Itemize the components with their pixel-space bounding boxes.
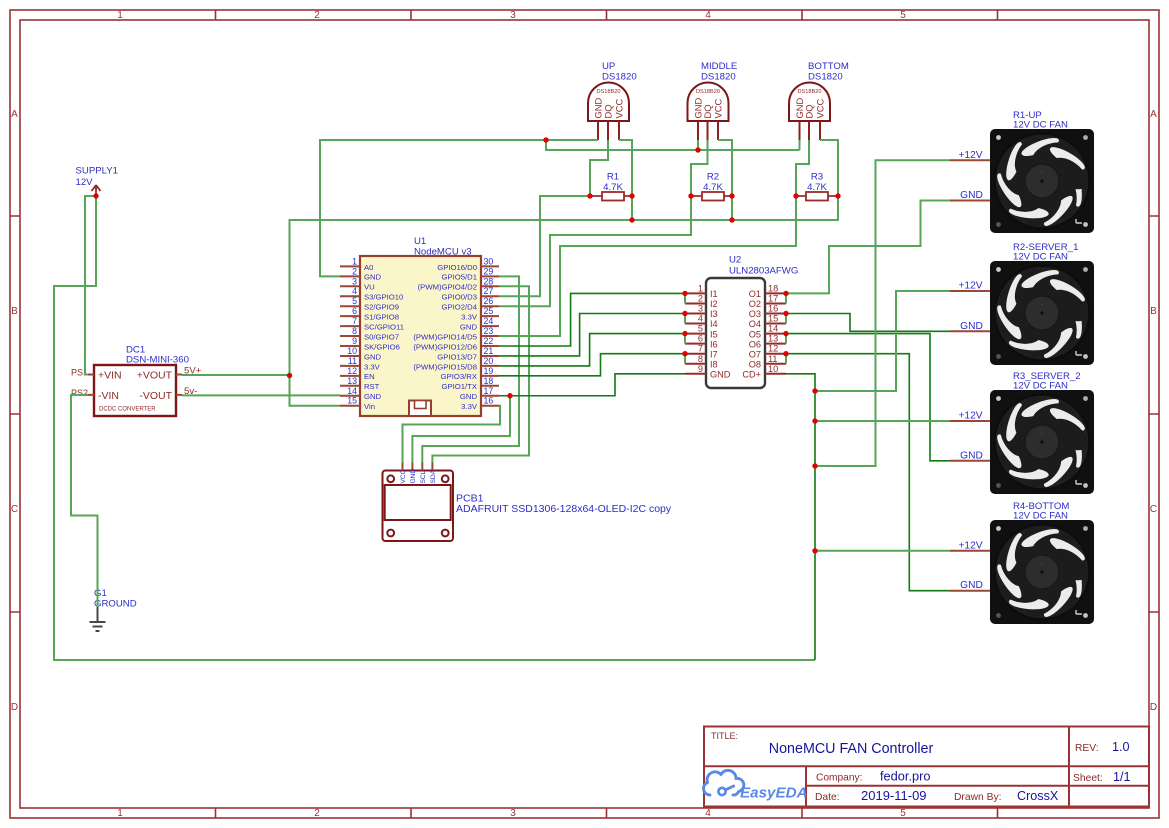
svg-text:O1: O1 xyxy=(749,289,761,299)
svg-text:D: D xyxy=(11,702,18,713)
svg-text:R1: R1 xyxy=(607,172,619,183)
junction R2 left xyxy=(688,193,693,198)
svg-text:12V DC FAN: 12V DC FAN xyxy=(1013,381,1068,392)
wire 5v- from DC1 to U1 pin14 xyxy=(182,394,340,396)
wire U1 D1 to PCB1 SCL xyxy=(422,276,519,462)
svg-text:CrossX: CrossX xyxy=(1017,789,1059,803)
wire 5V+ from DC1 xyxy=(182,374,290,376)
svg-text:21: 21 xyxy=(484,346,494,356)
ruler letters left xyxy=(11,109,18,713)
U2 left pin numbers xyxy=(698,283,703,373)
svg-text:G1: G1 xyxy=(94,588,107,599)
svg-text:I8: I8 xyxy=(710,359,718,369)
svg-text:13: 13 xyxy=(768,334,778,344)
svg-text:REV:: REV: xyxy=(1075,743,1099,754)
PCB1 screen rectangle xyxy=(385,485,451,520)
svg-text:13: 13 xyxy=(347,376,357,386)
wire GND bus lower row xyxy=(546,140,800,150)
junction VCC bus R2 xyxy=(729,217,734,222)
ruler ticks bottom xyxy=(216,808,998,818)
junction U2 O5 xyxy=(783,331,788,336)
svg-text:24: 24 xyxy=(484,316,494,326)
svg-text:5: 5 xyxy=(900,10,906,21)
junction U2 I3 xyxy=(682,311,687,316)
svg-text:GPIO0/D3: GPIO0/D3 xyxy=(442,293,477,302)
fan R4-BOTTOM label xyxy=(1013,501,1069,522)
svg-text:GND: GND xyxy=(960,321,983,332)
svg-text:DS1820: DS1820 xyxy=(808,72,843,83)
svg-text:11: 11 xyxy=(768,354,778,364)
junction R1 left xyxy=(587,193,592,198)
resistor R1 body xyxy=(602,192,624,201)
svg-text:9: 9 xyxy=(352,336,357,346)
svg-text:3: 3 xyxy=(510,10,516,21)
ruler numbers top xyxy=(117,10,906,21)
title block frame xyxy=(704,727,1149,807)
wire U2 O1 to fan1 GND xyxy=(786,201,950,294)
svg-text:17: 17 xyxy=(768,293,778,303)
svg-text:UP: UP xyxy=(602,61,615,72)
svg-text:GND: GND xyxy=(960,580,983,591)
svg-text:18: 18 xyxy=(484,376,494,386)
junction +12V fan1 tap xyxy=(812,463,817,468)
svg-text:Vin: Vin xyxy=(364,402,375,411)
wire U1 3.3V to PCB1 VCC xyxy=(403,406,501,463)
microcontroller U1 body xyxy=(360,256,481,416)
svg-text:3.3V: 3.3V xyxy=(461,402,478,411)
junction +12V fan2 tap xyxy=(812,388,817,393)
svg-text:I2: I2 xyxy=(710,299,718,309)
U1 left pin stubs 1-15 xyxy=(340,266,360,405)
svg-text:Sheet:: Sheet: xyxy=(1073,773,1103,784)
svg-text:SCL: SCL xyxy=(420,470,427,483)
svg-text:19: 19 xyxy=(484,366,494,376)
OLED module PCB1 label xyxy=(456,493,672,516)
temperature sensor U_MID label xyxy=(701,61,737,83)
U1 right pin stubs 16-30 xyxy=(481,266,499,405)
svg-text:B: B xyxy=(11,306,18,317)
U2 right pin names xyxy=(742,289,761,379)
wire VCC bus to 5V+ xyxy=(290,196,839,376)
wire MIDDLE VCC to R2 right xyxy=(718,140,732,220)
svg-text:O5: O5 xyxy=(749,329,761,339)
svg-text:A: A xyxy=(1150,109,1157,120)
resistor R3 label xyxy=(807,172,827,194)
svg-text:18: 18 xyxy=(768,283,778,293)
svg-text:fedor.pro: fedor.pro xyxy=(880,769,931,784)
svg-text:S1/GPIO8: S1/GPIO8 xyxy=(364,313,399,322)
svg-text:S2/GPIO9: S2/GPIO9 xyxy=(364,303,399,312)
wire +12V supply trunk xyxy=(54,196,815,660)
svg-text:Date:: Date: xyxy=(815,792,840,803)
U1 right pin numbers xyxy=(484,256,494,405)
svg-text:GPIO13/D7: GPIO13/D7 xyxy=(437,352,477,361)
svg-text:2019-11-09: 2019-11-09 xyxy=(861,788,927,803)
svg-text:NoneMCU FAN Controller: NoneMCU FAN Controller xyxy=(769,741,934,757)
wire MIDDLE DQ to R2 and U1 pin26 xyxy=(499,140,708,306)
wire BOTTOM VCC to R3 right xyxy=(820,140,838,220)
driver U2 ULN2803AFWG label xyxy=(729,255,798,277)
fan R2-SERVER_1 label xyxy=(1013,242,1078,263)
svg-text:TITLE:: TITLE: xyxy=(711,731,738,741)
svg-text:2: 2 xyxy=(314,808,320,819)
svg-text:23: 23 xyxy=(484,326,494,336)
svg-text:GPIO1/TX: GPIO1/TX xyxy=(442,382,477,391)
junction U1 GND pin17 xyxy=(507,393,512,398)
svg-text:I3: I3 xyxy=(710,309,718,319)
svg-text:VCC: VCC xyxy=(712,98,723,118)
svg-text:DCDC CONVERTER: DCDC CONVERTER xyxy=(99,407,156,413)
EasyEDA logo xyxy=(704,770,808,801)
junction U2 I1 xyxy=(682,291,687,296)
ruler ticks left xyxy=(10,216,20,612)
svg-text:1: 1 xyxy=(352,256,357,266)
svg-text:U1: U1 xyxy=(414,236,426,247)
svg-text:5: 5 xyxy=(698,324,703,334)
PCB1 mounting holes xyxy=(387,475,448,536)
svg-text:DQ: DQ xyxy=(602,104,613,118)
svg-text:GPIO3/RX: GPIO3/RX xyxy=(441,372,477,381)
svg-text:EN: EN xyxy=(364,372,375,381)
svg-text:I7: I7 xyxy=(710,349,718,359)
svg-text:10: 10 xyxy=(347,346,357,356)
svg-text:5: 5 xyxy=(352,296,357,306)
svg-text:4: 4 xyxy=(698,314,703,324)
svg-text:20: 20 xyxy=(484,356,494,366)
fan R2-SERVER_1 image xyxy=(990,261,1094,365)
resistor R3 leads xyxy=(796,195,838,197)
svg-text:7: 7 xyxy=(698,344,703,354)
junction VCC bus R1 xyxy=(629,217,634,222)
svg-text:12: 12 xyxy=(768,344,778,354)
fan R2-SERVER_1 pin stubs xyxy=(950,291,990,331)
DC-DC converter DC1 label xyxy=(126,345,189,366)
microcontroller U1 NodeMCU v3 label xyxy=(414,236,472,258)
svg-text:SUPPLY1: SUPPLY1 xyxy=(76,166,118,177)
svg-text:1/1: 1/1 xyxy=(1113,770,1131,784)
temperature sensor U_MID body xyxy=(688,83,729,122)
svg-text:VCC: VCC xyxy=(613,98,624,118)
svg-text:D: D xyxy=(1150,702,1157,713)
svg-text:VCC: VCC xyxy=(400,469,407,483)
svg-text:1: 1 xyxy=(698,283,703,293)
svg-text:4: 4 xyxy=(705,10,711,21)
svg-text:O7: O7 xyxy=(749,349,761,359)
fan R1-UP pin stubs xyxy=(950,160,990,200)
svg-text:O3: O3 xyxy=(749,309,761,319)
svg-text:O2: O2 xyxy=(749,299,761,309)
svg-text:25: 25 xyxy=(484,306,494,316)
wire U2 O7 to fan4 GND xyxy=(786,354,950,591)
svg-text:6: 6 xyxy=(698,334,703,344)
svg-text:26: 26 xyxy=(484,296,494,306)
U2 left pin names xyxy=(710,289,731,379)
svg-text:GND: GND xyxy=(410,469,417,484)
ruler numbers bottom xyxy=(117,808,906,819)
svg-text:3: 3 xyxy=(510,808,516,819)
svg-text:I6: I6 xyxy=(710,339,718,349)
wire 5V+ to U1 Vin xyxy=(290,376,341,406)
svg-text:4: 4 xyxy=(705,808,711,819)
svg-text:I4: I4 xyxy=(710,319,718,329)
U1 USB notch xyxy=(409,401,431,417)
svg-text:4: 4 xyxy=(352,286,357,296)
svg-text:8: 8 xyxy=(698,354,703,364)
svg-text:16: 16 xyxy=(768,304,778,314)
PCB1 pin stubs xyxy=(403,463,433,471)
svg-text:O8: O8 xyxy=(749,359,761,369)
svg-text:15: 15 xyxy=(768,314,778,324)
svg-text:VCC: VCC xyxy=(814,98,825,118)
junction R3 left xyxy=(793,193,798,198)
wire MIDDLE GND pin drop xyxy=(697,140,699,150)
svg-text:2: 2 xyxy=(314,10,320,21)
resistor R1 leads xyxy=(590,195,634,197)
svg-text:12: 12 xyxy=(347,366,357,376)
resistor R2 leads xyxy=(691,195,734,197)
junction U2 O7 xyxy=(783,351,788,356)
U2 right pin stubs 10-18 xyxy=(765,293,786,373)
svg-text:3.3V: 3.3V xyxy=(461,313,478,322)
svg-text:DS18B20: DS18B20 xyxy=(798,89,822,95)
resistor R2 body xyxy=(702,192,724,201)
ground symbol xyxy=(90,607,106,631)
svg-text:S3/GPIO10: S3/GPIO10 xyxy=(364,293,403,302)
power supply SUPPLY1 12V label xyxy=(76,166,118,189)
svg-text:SK/GPIO6: SK/GPIO6 xyxy=(364,342,400,351)
svg-text:6: 6 xyxy=(352,306,357,316)
svg-text:9: 9 xyxy=(698,364,703,374)
driver U2 body xyxy=(706,278,765,388)
wire U2 input pair ties xyxy=(684,293,686,363)
svg-text:+12V: +12V xyxy=(958,281,982,292)
svg-text:GND: GND xyxy=(960,450,983,461)
svg-text:2: 2 xyxy=(352,266,357,276)
svg-text:12V DC FAN: 12V DC FAN xyxy=(1013,120,1068,131)
ruler ticks right xyxy=(1149,216,1159,612)
svg-text:+12V: +12V xyxy=(958,411,982,422)
svg-text:O6: O6 xyxy=(749,339,761,349)
junction +12V fan3 tap xyxy=(812,418,817,423)
wire UP VCC to R1 right xyxy=(619,140,632,220)
fan R3_SERVER_2 image xyxy=(990,390,1094,494)
wire BOTTOM GND pin drop xyxy=(799,140,801,150)
svg-text:EasyEDA: EasyEDA xyxy=(740,785,808,802)
U2 right pin numbers xyxy=(768,283,778,373)
svg-text:DS18B20: DS18B20 xyxy=(696,89,720,95)
svg-text:A: A xyxy=(11,109,18,120)
fan R4-BOTTOM pin stubs xyxy=(950,551,990,591)
svg-text:30: 30 xyxy=(484,256,494,266)
svg-text:7: 7 xyxy=(352,316,357,326)
svg-text:-VIN: -VIN xyxy=(98,390,119,402)
fan R3_SERVER_2 label xyxy=(1013,371,1081,392)
svg-text:14: 14 xyxy=(347,386,357,396)
wire +12V to fan3 xyxy=(815,420,950,422)
junction SUPPLY1 12V xyxy=(93,193,98,198)
junction R3 right xyxy=(835,193,840,198)
U2 left pin stubs 1-9 xyxy=(685,293,706,373)
svg-text:GND: GND xyxy=(460,392,478,401)
svg-text:RST: RST xyxy=(364,382,380,391)
wire DQ_UP net to U1 pin27 xyxy=(499,196,590,296)
svg-text:C: C xyxy=(11,504,18,515)
U1 left pin names xyxy=(364,263,404,411)
svg-text:DQ: DQ xyxy=(702,104,713,118)
svg-text:GROUND: GROUND xyxy=(94,599,137,610)
svg-text:17: 17 xyxy=(484,386,494,396)
wire U2 output pair ties xyxy=(785,293,787,363)
wire U1 D7 to U2 I3 xyxy=(499,314,685,356)
wire U1 RX to U2 I7 xyxy=(499,354,685,376)
wire U1 D2 to PCB1 SDA xyxy=(432,286,529,462)
svg-text:R2: R2 xyxy=(707,172,719,183)
svg-text:Company:: Company: xyxy=(816,773,862,784)
svg-text:10: 10 xyxy=(768,364,778,374)
ground G1 label xyxy=(94,588,137,610)
temperature sensor U_BOT body xyxy=(789,83,830,122)
svg-text:12V DC FAN: 12V DC FAN xyxy=(1013,252,1068,263)
svg-text:GPIO5/D1: GPIO5/D1 xyxy=(442,273,477,282)
fan R1-UP label xyxy=(1013,110,1068,131)
fan R3_SERVER_2 pin stubs xyxy=(950,421,990,461)
svg-text:5: 5 xyxy=(900,808,906,819)
svg-text:GND: GND xyxy=(364,352,382,361)
svg-text:(PWM)GPIO14/D5: (PWM)GPIO14/D5 xyxy=(413,332,477,341)
OLED module PCB1 body xyxy=(383,471,454,542)
ruler ticks top xyxy=(216,10,998,20)
svg-text:3.3V: 3.3V xyxy=(364,362,381,371)
svg-text:+VIN: +VIN xyxy=(98,370,122,382)
junction 5V+ node xyxy=(287,373,292,378)
svg-text:12V: 12V xyxy=(76,177,94,188)
U1 right pin names xyxy=(413,263,478,411)
svg-text:ADAFRUIT SSD1306-128x64-OLED-I: ADAFRUIT SSD1306-128x64-OLED-I2C copy xyxy=(456,503,672,515)
wire U1 GND to PCB1 GND xyxy=(412,396,510,463)
svg-text:A0: A0 xyxy=(364,263,373,272)
svg-text:22: 22 xyxy=(484,336,494,346)
svg-text:GPIO2/D4: GPIO2/D4 xyxy=(442,303,478,312)
svg-text:12V DC FAN: 12V DC FAN xyxy=(1013,511,1068,522)
DC1 pin stubs xyxy=(88,375,182,395)
wire U2 CD+ to +12V trunk xyxy=(786,374,815,660)
svg-text:ULN2803AFWG: ULN2803AFWG xyxy=(729,266,798,277)
junction MIDDLE GND xyxy=(695,147,700,152)
svg-text:DQ: DQ xyxy=(803,104,814,118)
fan R4-BOTTOM image xyxy=(990,520,1094,624)
svg-text:SC/GPIO11: SC/GPIO11 xyxy=(364,323,404,332)
svg-text:DS18B20: DS18B20 xyxy=(597,89,621,95)
svg-text:1: 1 xyxy=(117,10,123,21)
svg-text:DS1820: DS1820 xyxy=(701,72,736,83)
wire UP DQ to R1 xyxy=(590,140,608,196)
resistor R1 label xyxy=(603,172,623,194)
svg-text:SDA: SDA xyxy=(430,469,437,483)
wire U1 D8 to U2 I5 xyxy=(499,334,685,366)
svg-text:29: 29 xyxy=(484,266,494,276)
svg-text:U2: U2 xyxy=(729,255,741,266)
svg-text:3: 3 xyxy=(352,276,357,286)
svg-text:8: 8 xyxy=(352,326,357,336)
svg-text:GPIO16/D0: GPIO16/D0 xyxy=(437,263,477,272)
wire U2 O3 to fan2 GND xyxy=(786,314,950,332)
temperature sensor U_UP label xyxy=(602,61,637,83)
svg-text:15: 15 xyxy=(347,396,357,406)
svg-text:GND: GND xyxy=(710,370,731,380)
svg-text:O4: O4 xyxy=(749,319,761,329)
wire +12V to fan4 xyxy=(815,550,950,552)
junction R2 right xyxy=(729,193,734,198)
svg-text:C: C xyxy=(1150,504,1157,515)
svg-text:GND: GND xyxy=(460,323,478,332)
svg-text:27: 27 xyxy=(484,286,494,296)
junction U2 O1 xyxy=(783,291,788,296)
U_BOT pin stubs xyxy=(800,121,821,140)
wire U1 D6 to U2 I1 xyxy=(499,293,685,346)
wire DC1 -VIN to ground G1 xyxy=(71,395,98,607)
wire supply to DC1 +VIN xyxy=(85,196,96,375)
ruler letters right xyxy=(1150,109,1157,713)
svg-text:1.0: 1.0 xyxy=(1112,740,1130,754)
temperature sensor U_BOT label xyxy=(808,61,849,83)
svg-text:S0/GPIO7: S0/GPIO7 xyxy=(364,332,399,341)
svg-text:-VOUT: -VOUT xyxy=(139,390,172,402)
svg-text:+12V: +12V xyxy=(958,540,982,551)
junction +12V fan4 tap xyxy=(812,548,817,553)
svg-text:+12V: +12V xyxy=(958,150,982,161)
junction U2 I7 xyxy=(682,351,687,356)
svg-text:I5: I5 xyxy=(710,329,718,339)
svg-text:PS2: PS2 xyxy=(71,388,88,398)
wire +12V to fan2 xyxy=(815,291,950,391)
wire GND bus to sensors and U1 pin2 xyxy=(320,140,598,276)
svg-text:GND: GND xyxy=(364,273,382,282)
temperature sensor U_UP body xyxy=(588,83,629,122)
svg-text:DS1820: DS1820 xyxy=(602,72,637,83)
svg-text:28: 28 xyxy=(484,276,494,286)
svg-text:BOTTOM: BOTTOM xyxy=(808,61,849,72)
svg-text:Drawn By:: Drawn By: xyxy=(954,792,1002,803)
svg-text:(PWM)GPIO12/D6: (PWM)GPIO12/D6 xyxy=(413,342,477,351)
svg-text:16: 16 xyxy=(484,396,494,406)
power supply SUPPLY1 arrow symbol xyxy=(92,185,101,196)
svg-text:VU: VU xyxy=(364,283,375,292)
wire U1 GND pin17 to U2 GND xyxy=(499,374,685,396)
svg-text:I1: I1 xyxy=(710,289,718,299)
DC-DC converter DC1 body xyxy=(94,365,176,416)
svg-text:14: 14 xyxy=(768,324,778,334)
svg-text:11: 11 xyxy=(348,356,357,366)
svg-text:2: 2 xyxy=(698,293,703,303)
junction U2 I5 xyxy=(682,331,687,336)
U1 left pin numbers xyxy=(347,256,357,405)
fan R1-UP image xyxy=(990,129,1094,233)
wire U2 O5 to fan3 GND xyxy=(786,334,950,461)
svg-text:MIDDLE: MIDDLE xyxy=(701,61,737,72)
svg-text:R3: R3 xyxy=(811,172,823,183)
svg-text:(PWM)GPIO4/D2: (PWM)GPIO4/D2 xyxy=(418,283,477,292)
svg-text:GND: GND xyxy=(364,392,382,401)
junction U2 O3 xyxy=(783,311,788,316)
resistor R3 body xyxy=(806,192,828,201)
svg-text:+VOUT: +VOUT xyxy=(137,370,173,382)
wire +12V to fan1 xyxy=(815,160,950,466)
svg-text:B: B xyxy=(1150,306,1157,317)
svg-text:GND: GND xyxy=(960,190,983,201)
svg-text:1: 1 xyxy=(117,808,123,819)
junction R1 right xyxy=(629,193,634,198)
resistor R2 label xyxy=(703,172,723,194)
